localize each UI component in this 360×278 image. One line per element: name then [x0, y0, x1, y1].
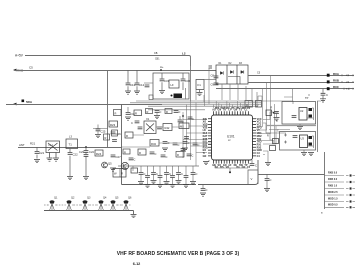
- connector stub TXD: [325, 206, 345, 208]
- svg-text:C: C: [160, 110, 162, 114]
- ground bracket under IC: [215, 165, 248, 172]
- inner divider of varactor bank: [228, 77, 240, 85]
- svg-text:R42: R42: [165, 126, 170, 130]
- transistor Q16: [122, 200, 131, 210]
- wire vertical through bus at x209: [205, 69, 210, 107]
- node 5RA junction dot: [22, 100, 25, 103]
- QFP left pins: [208, 119, 212, 156]
- svg-text:U2: U2: [300, 109, 304, 113]
- wire into box2: [266, 130, 290, 134]
- capacitor C70 left routing: [184, 137, 189, 139]
- junction dot RXC: [327, 87, 330, 90]
- svg-text:F1: F1: [198, 83, 202, 87]
- transistor Q15: [109, 200, 118, 210]
- svg-text:R43: R43: [151, 142, 156, 146]
- capacitor C47 row2: [163, 142, 168, 144]
- resistor R32 below lines: [245, 101, 253, 108]
- wire left routing verticals: [183, 102, 196, 167]
- varactor D1: [220, 71, 223, 74]
- QFP top pin labels: [212, 107, 251, 112]
- bus line 3: [142, 104, 262, 106]
- svg-text:MOD 2.5: MOD 2.5: [328, 191, 338, 194]
- svg-text:R: R: [126, 134, 128, 138]
- varactor module bank D1-D3: [216, 65, 248, 84]
- svg-text:C22: C22: [73, 153, 79, 157]
- svg-text:C: C: [192, 154, 194, 158]
- svg-text:MX: MX: [180, 125, 184, 129]
- buffer box B1: [282, 102, 316, 125]
- svg-text:AF: AF: [228, 164, 232, 167]
- svg-text:C25: C25: [101, 130, 106, 134]
- svg-text:C: C: [134, 158, 136, 162]
- svg-text:R: R: [271, 107, 273, 110]
- svg-text:R21: R21: [30, 142, 36, 146]
- wire row3 link: [121, 127, 211, 147]
- resistor R23 mid-left column: [109, 121, 118, 127]
- svg-text:RXB: RXB: [333, 79, 339, 83]
- svg-text:R: R: [177, 153, 179, 157]
- svg-text:U3: U3: [301, 137, 305, 141]
- wire left pin feeds: [183, 120, 207, 153]
- ground below Q5: [110, 168, 116, 171]
- wire QFP right lower to line: [263, 151, 268, 162]
- resistor R25: [104, 134, 110, 140]
- polarity marks: [209, 66, 213, 68]
- svg-text:R: R: [115, 112, 117, 116]
- junction dot left routing: [182, 115, 184, 117]
- capacitor C30 at FL2 input: [145, 85, 150, 87]
- capacitor C74 field left: [129, 158, 134, 160]
- capacitor C21: [36, 147, 38, 159]
- svg-text:MOD 1.5: MOD 1.5: [328, 198, 338, 201]
- ground below FL1 legs: [47, 158, 53, 161]
- capacitor C27: [111, 155, 116, 157]
- wire bus corner to right column: [258, 96, 262, 101]
- wire vertical trunk from RX rail: [107, 71, 109, 148]
- bus line 1: [136, 100, 262, 102]
- ground below C25: [97, 131, 99, 134]
- ground at x268: [265, 163, 271, 166]
- transistor Q11: [48, 200, 57, 210]
- connector stub MOD: [325, 194, 345, 196]
- crystal filter FL1: [46, 141, 60, 158]
- svg-text:C26: C26: [116, 132, 122, 136]
- capacitor C49 row2: [183, 142, 188, 144]
- resistor R33 below lines: [256, 101, 262, 108]
- QFP left pin labels: [203, 118, 208, 158]
- capacitor C59: [172, 166, 174, 175]
- capacitor C64 in box1: [292, 116, 297, 118]
- capacitor C61: [185, 166, 187, 175]
- ground below C36: [322, 96, 324, 99]
- capacitor C31 inside FL2: [161, 73, 163, 90]
- transistor Q13: [81, 200, 90, 210]
- capacitor C58: [166, 166, 168, 172]
- transistor Q10: [309, 143, 313, 146]
- varactor D2: [230, 70, 233, 73]
- svg-text:R: R: [166, 110, 168, 114]
- svg-text:C: C: [178, 143, 180, 147]
- QFP bottom pin labels: [212, 164, 251, 169]
- transistor Q8: [309, 115, 313, 118]
- svg-text:D3: D3: [239, 63, 243, 65]
- buffer box B2: [280, 132, 316, 151]
- svg-text:C: C: [155, 152, 157, 156]
- IC U103: [300, 135, 308, 148]
- capacitor C52: [161, 155, 166, 157]
- junction dot RXA: [327, 74, 330, 77]
- svg-text:C: C: [198, 143, 200, 147]
- wire bus to box1 top: [262, 101, 321, 104]
- capacitor C55: [147, 166, 149, 175]
- transistor Q12: [65, 200, 74, 210]
- ground under box2: [303, 150, 305, 152]
- wire bus verticals feeding IC top pins: [214, 101, 249, 108]
- resistor R42: [163, 124, 172, 131]
- svg-text:L3: L3: [69, 135, 72, 139]
- junction dot RXB: [327, 80, 330, 83]
- svg-text:5RA: 5RA: [26, 100, 33, 104]
- bus line 5: [148, 109, 205, 111]
- capacitor C62: [192, 166, 194, 172]
- ground below C21: [34, 160, 40, 163]
- ground below C68: [264, 189, 270, 192]
- plus marks near box2: [284, 134, 287, 144]
- svg-text:RXA: RXA: [333, 72, 339, 76]
- wire staircase to RX lines: [257, 75, 276, 144]
- capacitor C22 below T1: [69, 149, 71, 177]
- resistor R72 field row1: [165, 109, 172, 114]
- svg-text:C: C: [277, 130, 279, 133]
- ground stub left of bracket: [208, 160, 210, 162]
- RX line A: [248, 75, 354, 77]
- svg-text:C: C: [206, 188, 208, 192]
- svg-text:VHF RF BOARD SCHEMATIC VER B (: VHF RF BOARD SCHEMATIC VER B (PAGE 3 OF …: [117, 251, 240, 257]
- svg-text:CB: CB: [154, 52, 158, 55]
- capacitor C75 field row3: [187, 154, 192, 156]
- svg-text:Q2: Q2: [71, 197, 75, 200]
- svg-text:X1: X1: [146, 117, 150, 121]
- capacitor C33: [199, 90, 201, 93]
- capacitor C73 field row1: [174, 111, 179, 113]
- capacitor C60: [178, 166, 180, 172]
- svg-text:D2: D2: [229, 63, 233, 65]
- svg-text:U101: U101: [227, 135, 235, 139]
- svg-text:a: a: [321, 212, 323, 215]
- resistor R24: [95, 150, 103, 156]
- ground under box1: [299, 124, 301, 126]
- inter-box gray line: [266, 125, 316, 127]
- svg-text:C: C: [196, 172, 198, 176]
- capacitor C51: [150, 152, 155, 154]
- capacitor C54: [140, 166, 142, 172]
- capacitor C44 beside X1: [157, 127, 162, 129]
- svg-text:RXC: RXC: [333, 85, 339, 89]
- capacitor C48 row2: [173, 143, 178, 145]
- wire feed varactor bank down: [222, 84, 238, 100]
- svg-text:ANT: ANT: [19, 143, 25, 147]
- svg-text:C: C: [182, 120, 184, 124]
- capacitor C50 row2: [193, 143, 198, 145]
- svg-text:R: R: [139, 151, 141, 155]
- capacitor C32 inside FL2: [182, 73, 184, 90]
- capacitor C12 on RX rail: [136, 70, 138, 91]
- svg-text:Q4: Q4: [103, 197, 107, 200]
- notch box V1: [248, 170, 258, 184]
- svg-text:C: C: [166, 155, 168, 159]
- svg-text:R: R: [147, 110, 149, 114]
- capacitor C36 on RX line C: [322, 89, 324, 93]
- ground row2: [162, 148, 168, 151]
- ferrite bead FB1: [174, 94, 183, 99]
- resistor R26 column: [112, 130, 118, 136]
- bus line 4: [148, 105, 258, 107]
- svg-text:CB1: CB1: [155, 59, 160, 61]
- wire vertical parallel feed: [185, 88, 187, 100]
- capacitor C34 on x216: [215, 70, 217, 76]
- resistor R31: [196, 80, 204, 90]
- capacitor C23 stacked pair: [85, 147, 87, 176]
- wire box2 right rail: [307, 136, 314, 148]
- capacitor C35 on x216: [214, 83, 219, 85]
- capacitor C72 field row1: [155, 111, 160, 113]
- svg-text:FL1: FL1: [49, 143, 54, 147]
- resistor R62 left of box2: [273, 139, 279, 144]
- filter box FL2: [153, 73, 189, 99]
- wire vertical from A+ rail corner: [190, 66, 192, 102]
- svg-text:C4: C4: [257, 155, 261, 158]
- svg-text:R23: R23: [110, 123, 116, 127]
- resistor R63 below box2: [270, 146, 276, 151]
- capacitor C53 hang: [132, 166, 134, 171]
- svg-text:TP: TP: [305, 96, 309, 100]
- ground below C31: [159, 91, 165, 94]
- RX line C: [216, 88, 354, 90]
- svg-text:V: V: [251, 177, 253, 181]
- QFP top pins: [214, 111, 249, 115]
- capacitor C67: [251, 160, 253, 163]
- ground below C41: [125, 117, 131, 120]
- ground below C22: [67, 177, 73, 180]
- wire bus drop to IC top pins: [196, 86, 257, 104]
- connector stub RXB: [325, 175, 345, 177]
- tick marks on line ends: [342, 74, 353, 76]
- capacitor C65 left of box1: [274, 112, 279, 114]
- svg-text:C: C: [179, 110, 181, 114]
- RX line B: [248, 82, 354, 84]
- transistor Q14: [97, 200, 106, 210]
- svg-text:C: C: [255, 164, 257, 168]
- transformer T1: [66, 139, 78, 149]
- svg-text:Q6: Q6: [128, 197, 132, 200]
- inductor LF1 inside FL2: [169, 80, 179, 88]
- left filter input wire: [18, 147, 122, 149]
- resistor R73 field left: [123, 149, 130, 154]
- transistor Q7: [309, 108, 313, 111]
- capacitor C41 in module field: [127, 107, 129, 112]
- wire A+5V rail: [25, 56, 191, 67]
- capacitor C63 below module: [202, 185, 204, 189]
- junction dot x86: [85, 146, 87, 148]
- node 5RA input arrow: [13, 103, 17, 106]
- QFP bottom pins: [214, 160, 249, 164]
- capacitor C43 beside X1: [138, 127, 143, 129]
- svg-text:Q5: Q5: [108, 162, 112, 166]
- svg-text:6-12: 6-12: [133, 262, 141, 266]
- capacitor C71 left routing: [181, 149, 186, 151]
- svg-text:R: R: [267, 135, 269, 138]
- svg-text:D1: D1: [219, 63, 223, 65]
- junction dot box1 input: [273, 112, 275, 114]
- ground top right of boxes: [322, 98, 324, 101]
- svg-text:C5: C5: [257, 72, 261, 75]
- capacitor C25 mid-left: [93, 125, 108, 129]
- below-module horizontal wire: [118, 165, 199, 167]
- resistor R52: [113, 169, 126, 178]
- resistor R41: [134, 110, 142, 116]
- svg-text:T1: T1: [69, 143, 73, 147]
- bottom transistor rail: [44, 211, 134, 215]
- capacitor C42: [135, 121, 140, 123]
- svg-text:RXB 3.0: RXB 3.0: [328, 178, 338, 181]
- svg-text:LF: LF: [171, 83, 175, 87]
- wire 5RA rail: [6, 104, 162, 106]
- svg-text:RXB 5.0: RXB 5.0: [328, 172, 338, 175]
- module shield box: [122, 105, 259, 185]
- svg-text:MOD 0.5: MOD 0.5: [328, 203, 338, 206]
- transistor Q9: [309, 136, 313, 139]
- wire RX rail: [15, 70, 216, 72]
- svg-text:Q5: Q5: [115, 197, 119, 200]
- bus line 2: [130, 102, 262, 104]
- svg-text:C12: C12: [139, 83, 145, 87]
- resistor R71 field row1: [146, 109, 153, 114]
- output trunk vertical: [324, 152, 326, 209]
- svg-text:GN: GN: [203, 155, 207, 158]
- svg-text:RXB 1.0: RXB 1.0: [328, 185, 338, 188]
- svg-text:C32: C32: [185, 79, 191, 83]
- resistor R75 on module left edge: [114, 110, 122, 116]
- varactor D3: [241, 70, 244, 73]
- svg-text:C: C: [326, 93, 328, 97]
- resistor R74 field row3: [176, 152, 184, 158]
- dashed links between diodes: [44, 204, 122, 206]
- svg-text:C23: C23: [79, 150, 84, 154]
- connector stub RXA: [325, 181, 345, 183]
- capacitor C56: [153, 166, 155, 172]
- svg-text:C: C: [192, 117, 194, 121]
- connector stub TXC: [325, 201, 345, 203]
- svg-text:Q3: Q3: [87, 197, 91, 200]
- crystal X1: [144, 121, 156, 134]
- svg-text:A+5V: A+5V: [15, 54, 24, 58]
- junction dot A+: [160, 69, 162, 71]
- svg-text:C5: C5: [29, 66, 33, 70]
- svg-text:C: C: [270, 178, 272, 182]
- svg-text:K: K: [274, 140, 276, 144]
- svg-text:C21: C21: [39, 151, 45, 155]
- svg-text:C: C: [181, 172, 183, 176]
- svg-text:C8: C8: [211, 74, 215, 78]
- wire drop to buffer box1: [284, 89, 293, 102]
- wire QFP right to buffers: [263, 112, 278, 140]
- capacitor C26 mid-left: [111, 132, 116, 134]
- capacitor C11 on RX rail: [127, 70, 129, 91]
- resistor R61 left of box1: [266, 110, 272, 116]
- wire box1 right rail: [307, 108, 314, 120]
- label box on FL2 corner: [149, 95, 153, 100]
- svg-text:R: R: [124, 150, 126, 154]
- svg-text:C11: C11: [130, 83, 135, 87]
- svg-text:A+: A+: [160, 65, 164, 69]
- ground below C12: [134, 91, 140, 94]
- capacitor C46: [188, 117, 193, 119]
- svg-text:C9: C9: [211, 83, 215, 87]
- svg-text:C: C: [131, 121, 133, 125]
- wire into FL2 left: [144, 82, 153, 84]
- svg-text:R24: R24: [96, 152, 102, 156]
- boxes outer right vertical: [317, 101, 319, 152]
- connector stub TXB: [325, 188, 345, 190]
- ground below C24: [83, 177, 89, 180]
- ground below C11: [125, 91, 131, 94]
- resistor R45: [138, 149, 146, 155]
- ground at rail end: [131, 215, 137, 218]
- long wire to output trunk: [258, 174, 325, 176]
- QFP U101 body: [212, 115, 253, 160]
- capacitor C45: [179, 116, 181, 120]
- transistor Q5 circle: [102, 162, 108, 168]
- svg-text:W: W: [114, 172, 117, 176]
- resistor R51: [131, 168, 138, 173]
- capacitor C57: [159, 166, 161, 175]
- QFP right pins: [253, 119, 257, 156]
- IC U102: [299, 108, 307, 121]
- QFP right pin labels: [257, 118, 263, 158]
- node RXD input arrow: [13, 69, 17, 72]
- wire into varactor bank: [204, 79, 216, 81]
- svg-text:C24: C24: [89, 150, 94, 154]
- svg-text:L2: L2: [182, 52, 186, 56]
- mixer box MX1: [179, 123, 189, 129]
- resistor R43 row2: [150, 140, 159, 147]
- svg-text:R: R: [105, 136, 107, 140]
- capacitor C68: [266, 174, 268, 178]
- svg-text:R: R: [135, 112, 137, 116]
- svg-text:R: R: [121, 172, 123, 176]
- capacitor C66 in box2: [293, 136, 298, 138]
- svg-text:C27: C27: [116, 155, 122, 159]
- svg-text:Q1: Q1: [54, 197, 58, 200]
- transistor Q6 circle: [121, 162, 128, 169]
- resistor R44 row3: [125, 132, 133, 138]
